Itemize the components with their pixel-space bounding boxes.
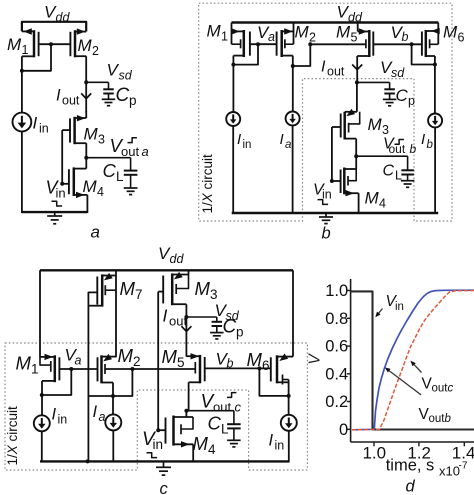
- svg-text:b: b: [402, 30, 409, 44]
- svg-text:M: M: [368, 115, 383, 134]
- wire M2-M3 (a): [85, 111, 87, 118]
- label Vsd (b): [380, 58, 405, 80]
- wire M7 gate diode (c): [88, 292, 97, 305]
- label Iout (a): [56, 87, 80, 108]
- svg-text:4: 4: [379, 196, 386, 210]
- node M5 input (b): [308, 42, 312, 46]
- plot x-axis title (d): [386, 457, 435, 475]
- node M6 drain (c): [287, 394, 291, 398]
- svg-text:M: M: [365, 189, 380, 208]
- transistor M4 (c): [166, 416, 194, 448]
- transistor M5 (c): [186, 353, 204, 383]
- wire rail drop M7/M2 (c): [115, 270, 117, 357]
- wire CL ground (c): [233, 428, 235, 440]
- gate wire M1-M2 (a): [39, 43, 71, 45]
- glyph step-down Vin (b): [318, 200, 329, 205]
- node M2 drain (c): [111, 394, 115, 398]
- label Vin (c): [142, 429, 163, 452]
- transistor M1 (b): [231, 23, 250, 58]
- wire M4 source to rail (c): [192, 444, 194, 462]
- ground rail (a): [22, 211, 88, 213]
- label M5 (b): [336, 23, 358, 45]
- node M2 drain (b): [291, 64, 295, 68]
- label Cp (a): [116, 85, 137, 108]
- svg-text:c: c: [160, 480, 169, 495]
- svg-text:2: 2: [133, 354, 141, 369]
- ground CL (b): [401, 181, 415, 188]
- wire M4 source to rail (b): [358, 193, 360, 213]
- node Vin (c): [156, 428, 160, 432]
- label Vb (b): [391, 23, 409, 44]
- node Vin (a): [60, 182, 64, 186]
- plot x-tick labels (d): [362, 444, 474, 463]
- svg-text:a: a: [91, 223, 100, 242]
- label M3 (c): [195, 278, 218, 302]
- wire Ib to rail (b): [434, 128, 436, 214]
- leader arrow Voutc (d): [410, 361, 421, 373]
- node Iout Vsd (c): [184, 315, 188, 319]
- node Vin (b): [330, 179, 334, 183]
- svg-text:I: I: [280, 131, 284, 148]
- ground Cp (a): [102, 99, 116, 105]
- node Vsd (a): [84, 80, 88, 84]
- svg-text:M: M: [120, 278, 136, 299]
- svg-text:a: a: [75, 354, 82, 368]
- node Va (b): [256, 42, 260, 46]
- label M6 (c): [247, 349, 270, 373]
- svg-text:x10: x10: [439, 464, 460, 479]
- capacitor Cp (a): [103, 89, 114, 93]
- svg-text:M: M: [7, 35, 22, 54]
- svg-text:2: 2: [92, 44, 99, 58]
- glyph step-up Voutc (c): [227, 393, 236, 398]
- wire M5 drain Iout (b): [356, 56, 358, 82]
- label Voutb (d): [419, 406, 452, 425]
- svg-text:c: c: [235, 400, 242, 415]
- gate wire Vb (b): [373, 43, 422, 45]
- glyph step-down Vin (a): [52, 201, 63, 206]
- caption a: [91, 223, 100, 242]
- svg-text:M: M: [336, 23, 351, 42]
- wire Ia to rail (b): [292, 126, 294, 214]
- wire M3 source down (a): [85, 143, 87, 158]
- dashed box 1/X circuit (c): [5, 343, 307, 470]
- svg-text:5: 5: [177, 355, 185, 370]
- label Vsd (c): [215, 301, 240, 323]
- capacitor Cp (c): [212, 322, 223, 326]
- svg-text:C: C: [396, 86, 409, 105]
- svg-text:I: I: [321, 59, 326, 76]
- wire Vb diode (c): [259, 368, 288, 396]
- wire to Cp (c): [186, 317, 216, 322]
- Vdd rail (c): [40, 269, 293, 271]
- wire M2 drain to M7 wire (c): [88, 395, 113, 397]
- svg-text:c: c: [448, 383, 454, 395]
- label Cp (c): [223, 317, 244, 340]
- Vdd label (b): [337, 3, 363, 25]
- wire Iin to rail (b): [232, 126, 234, 214]
- wire M2 drain down (a): [85, 56, 87, 83]
- wire Iin right to rail (c): [288, 431, 290, 462]
- wire M3 gate (b): [332, 127, 341, 182]
- label 1/X circuit (b): [200, 154, 215, 214]
- wire M3 gate (a): [62, 130, 70, 185]
- svg-text:M: M: [84, 125, 99, 144]
- wire Iin to ground rail (a): [21, 131, 23, 213]
- wire Cp ground (c): [216, 326, 218, 333]
- capacitor CL (c): [227, 424, 241, 428]
- wire M1 diode (c): [42, 369, 71, 395]
- transistor M2 (a): [70, 28, 86, 57]
- plot y-axis title V (d): [307, 353, 324, 365]
- svg-text:in: in: [58, 412, 68, 426]
- node gate junction (a): [49, 42, 53, 46]
- svg-text:in: in: [275, 438, 285, 452]
- svg-text:V: V: [307, 353, 324, 365]
- svg-text:sd: sd: [391, 66, 405, 80]
- svg-text:1/X circuit: 1/X circuit: [200, 154, 215, 214]
- wire to Cp (b): [357, 82, 390, 89]
- curve Voutc blue (d): [354, 290, 474, 430]
- label Ia (b): [280, 131, 292, 151]
- svg-text:b: b: [445, 413, 452, 425]
- plot y-tick labels (d): [325, 282, 348, 439]
- svg-text:in: in: [153, 437, 164, 452]
- ground symbol (b): [319, 213, 333, 224]
- svg-text:out: out: [327, 64, 345, 78]
- capacitor CL (b): [401, 170, 414, 174]
- node M1 drain (b): [231, 63, 235, 67]
- svg-text:sd: sd: [119, 68, 133, 82]
- caption c: [160, 480, 169, 495]
- svg-text:5: 5: [351, 30, 358, 44]
- svg-text:M: M: [247, 349, 263, 370]
- svg-text:1/X circuit: 1/X circuit: [5, 406, 20, 466]
- label M7 (c): [120, 278, 143, 302]
- label CL (c): [208, 413, 230, 437]
- svg-text:in: in: [322, 187, 332, 201]
- transistor M2 (b): [277, 23, 294, 58]
- caption b: [322, 225, 331, 243]
- svg-text:out: out: [121, 144, 139, 159]
- svg-text:-7: -7: [459, 461, 468, 472]
- wire M2 drain to M5 input (b): [293, 44, 311, 66]
- label Va (c): [65, 346, 82, 368]
- capacitor Cp (b): [384, 89, 395, 93]
- svg-text:d: d: [406, 478, 416, 495]
- label M2 (a): [78, 36, 100, 58]
- wire M1 drain (b): [232, 56, 234, 113]
- wire M7 drain down (c): [87, 306, 89, 462]
- transistor M6 (c): [271, 354, 293, 385]
- label Vb (c): [216, 350, 234, 371]
- svg-text:I: I: [269, 432, 274, 450]
- svg-text:p: p: [129, 93, 137, 108]
- ground rail (b): [232, 212, 439, 214]
- wire Cp to ground (a): [108, 94, 110, 100]
- node M6 drain (b): [433, 63, 437, 67]
- wire M4 gate (a): [62, 183, 69, 185]
- wire M1 drain (c): [41, 381, 43, 416]
- wire M1 drain to Iin (a): [21, 56, 23, 112]
- node Vsd (b): [355, 80, 359, 84]
- wire M2 drain down (c): [112, 383, 114, 415]
- svg-text:time, s: time, s: [386, 457, 435, 475]
- svg-text:out: out: [62, 93, 80, 107]
- current source Iin right (c): [281, 415, 297, 431]
- transistor M1 (a): [22, 28, 39, 57]
- wire Vouta to M4 drain (a): [85, 158, 87, 169]
- wire Cp ground (b): [389, 94, 391, 100]
- svg-text:M: M: [443, 23, 458, 42]
- node Vouta (a): [84, 156, 88, 160]
- label Iout (c): [163, 306, 188, 329]
- wire bus down to M2 drain (c): [113, 369, 132, 396]
- node Voutb (b): [354, 154, 358, 158]
- svg-text:b: b: [427, 139, 434, 151]
- svg-text:C: C: [103, 160, 117, 181]
- svg-text:a: a: [285, 139, 291, 151]
- label M3 (b): [368, 115, 390, 137]
- arrow Iout (c): [181, 326, 191, 331]
- svg-text:b: b: [322, 225, 331, 243]
- label CL (a): [103, 160, 125, 184]
- plot x-ticks (d): [374, 442, 464, 446]
- capacitor CL (a): [124, 171, 138, 175]
- ground symbol (a): [47, 212, 62, 224]
- plot x-axis exponent (d): [439, 461, 468, 479]
- arrow Iout (b): [352, 65, 362, 70]
- transistor M6 (b): [422, 23, 440, 58]
- gate wire Va (b): [250, 43, 277, 45]
- svg-text:0.2: 0.2: [325, 393, 348, 411]
- subfig a: Vdd rail wire: [22, 22, 86, 32]
- svg-text:a: a: [268, 30, 275, 44]
- svg-text:L: L: [221, 421, 229, 436]
- label Vsd (a): [107, 61, 133, 83]
- svg-text:0.6: 0.6: [325, 338, 348, 356]
- svg-text:M: M: [193, 433, 209, 454]
- transistor M1 (c): [40, 354, 59, 383]
- label Vouta (a): [110, 135, 149, 159]
- svg-text:p: p: [408, 94, 415, 108]
- wire M1 diode (b): [233, 44, 258, 64]
- svg-text:L: L: [395, 168, 402, 182]
- node M7 wire to rail (c): [86, 459, 90, 463]
- svg-text:C: C: [223, 317, 237, 338]
- svg-text:in: in: [39, 121, 49, 135]
- subfig a: Vdd label: [44, 3, 70, 25]
- label Iin left (c): [52, 406, 68, 427]
- wire M6 drain (b): [434, 56, 436, 114]
- svg-text:I: I: [33, 114, 38, 133]
- label Voutb (b): [383, 136, 417, 156]
- svg-text:C: C: [383, 163, 395, 180]
- svg-text:1.0: 1.0: [325, 282, 348, 300]
- node bus junction (c): [130, 367, 134, 371]
- transistor M4 (a): [69, 167, 88, 198]
- wire M3 to Voutb (b): [355, 139, 357, 157]
- leader arrow Voutb (d): [385, 367, 421, 394]
- svg-text:dd: dd: [170, 252, 185, 266]
- current source Ib (b): [428, 114, 442, 128]
- svg-text:I: I: [163, 306, 168, 326]
- wire Ia to rail (c): [112, 430, 114, 462]
- curve Voutb red (d): [352, 291, 474, 430]
- svg-text:I: I: [93, 403, 98, 421]
- gate wire Va (c): [59, 368, 97, 370]
- label M2 (c): [118, 345, 141, 369]
- svg-text:out: out: [169, 313, 187, 328]
- svg-text:L: L: [116, 169, 124, 184]
- wire to Cp (a): [86, 82, 108, 89]
- label M5 (c): [162, 346, 185, 370]
- ground CL (c): [227, 440, 241, 447]
- label M3 (a): [84, 125, 106, 147]
- label Iin (a): [33, 114, 49, 136]
- label Ib (b): [421, 131, 434, 151]
- wire M3 gate (c): [158, 291, 163, 293]
- svg-text:4: 4: [208, 442, 216, 457]
- transistor M3 (c): [163, 270, 188, 305]
- node M1 drain (a): [20, 69, 24, 73]
- wire Voutb to CL (b): [356, 156, 407, 170]
- plot y-axis (d): [350, 279, 352, 442]
- label Iin (b): [237, 131, 251, 151]
- svg-text:a: a: [99, 410, 106, 424]
- svg-text:b: b: [227, 357, 234, 371]
- curve Vin (d): [351, 291, 474, 429]
- caption d: [406, 478, 416, 495]
- wire Voutb to M4 (b): [355, 156, 357, 169]
- svg-text:M: M: [118, 345, 134, 366]
- wire M1 diode connection (a): [23, 44, 51, 71]
- ground Cp (b): [383, 99, 397, 105]
- svg-text:3: 3: [210, 287, 218, 302]
- wire CL ground (b): [407, 175, 409, 181]
- wire rail right drop (c): [292, 270, 294, 356]
- svg-text:out: out: [429, 413, 446, 425]
- wire M5 drain to Voutc (c): [186, 382, 188, 410]
- label 1/X circuit (c): [5, 406, 20, 466]
- svg-text:M: M: [162, 346, 178, 367]
- svg-text:3: 3: [98, 132, 105, 146]
- leader arrow Vin (d): [375, 309, 382, 318]
- node Vb (c): [257, 366, 261, 370]
- svg-text:I: I: [52, 406, 57, 424]
- svg-text:M: M: [195, 278, 211, 299]
- svg-text:2: 2: [309, 30, 316, 44]
- svg-text:1: 1: [22, 43, 29, 57]
- svg-text:out: out: [432, 383, 449, 395]
- wire M4 source to rail (a): [86, 195, 88, 213]
- current source Iin (b): [226, 112, 240, 126]
- glyph step-up Vouta (a): [128, 138, 137, 143]
- svg-text:C: C: [116, 85, 130, 106]
- svg-text:6: 6: [262, 358, 270, 373]
- plot y-ticks (d): [347, 291, 351, 430]
- svg-text:I: I: [56, 87, 61, 105]
- dashed box 1/X circuit (b): [199, 3, 452, 221]
- wire Vouta to CL (a): [86, 158, 130, 171]
- ground symbol (c): [156, 461, 171, 475]
- svg-text:M: M: [83, 177, 98, 196]
- wire M2 drain (b): [292, 56, 294, 113]
- wire CL to ground (a): [130, 175, 132, 188]
- wire rail left drop (c): [39, 270, 41, 357]
- svg-text:in: in: [243, 139, 252, 151]
- Vdd rail (b): [232, 21, 439, 23]
- svg-text:p: p: [236, 324, 244, 339]
- label M2 (b): [295, 23, 317, 45]
- transistor M7 (c): [88, 273, 116, 307]
- node Voutc (c): [184, 409, 188, 413]
- svg-text:0.4: 0.4: [325, 365, 348, 383]
- current source Ia (c): [105, 414, 121, 430]
- svg-text:1: 1: [31, 361, 39, 376]
- wire M3 drain to Iout node (c): [185, 304, 187, 317]
- transistor M5 (b): [357, 23, 373, 58]
- wire Iout (a): [85, 82, 87, 112]
- label Vin (d): [386, 293, 404, 313]
- ground rail (c): [40, 460, 290, 462]
- svg-text:C: C: [208, 413, 222, 434]
- label Iin right (c): [269, 432, 285, 453]
- label M4 (b): [365, 189, 387, 211]
- svg-text:0.8: 0.8: [325, 310, 348, 328]
- label Voutc (d): [422, 376, 454, 395]
- svg-text:M: M: [207, 22, 222, 41]
- svg-text:4: 4: [97, 185, 104, 199]
- svg-text:7: 7: [135, 287, 143, 302]
- label Iout (b): [321, 59, 345, 79]
- label M4 (a): [83, 177, 105, 199]
- svg-text:I: I: [421, 131, 425, 148]
- wire M2 bar bus (c): [105, 368, 195, 370]
- node Vb (b): [410, 42, 414, 46]
- gate wire Vb (c): [205, 367, 271, 369]
- svg-text:M: M: [78, 36, 93, 55]
- svg-text:0: 0: [339, 421, 348, 439]
- transistor M3 (a): [70, 115, 86, 144]
- ground CL (a): [124, 188, 138, 195]
- current source Iin left (c): [34, 415, 50, 431]
- svg-text:in: in: [395, 301, 404, 313]
- transistor M3 (b): [341, 109, 360, 140]
- wire Vin line long (c): [157, 292, 159, 431]
- svg-text:M: M: [295, 23, 310, 42]
- wire Voutc to CL (c): [186, 411, 234, 425]
- wire Voutc to M4 drain (c): [185, 411, 187, 417]
- svg-text:a: a: [142, 144, 149, 159]
- svg-text:in: in: [56, 185, 66, 200]
- label Cp (b): [396, 86, 416, 108]
- arrow Iout (a): [81, 93, 91, 98]
- current source Iin (a): [13, 113, 32, 132]
- wire to M5 bar (b): [310, 43, 366, 45]
- label CL (b): [383, 163, 403, 183]
- label M6 (b): [443, 23, 465, 45]
- label Voutc (c): [201, 392, 242, 415]
- plot x-axis (d): [351, 441, 474, 443]
- Vdd label (c): [158, 244, 184, 266]
- svg-text:b: b: [410, 142, 417, 156]
- label M4 (c): [193, 433, 217, 457]
- wire Iout down (c): [185, 317, 187, 357]
- transistor M4 (b): [341, 168, 359, 197]
- label Vin (b): [313, 182, 332, 202]
- label Vin (a): [46, 178, 66, 201]
